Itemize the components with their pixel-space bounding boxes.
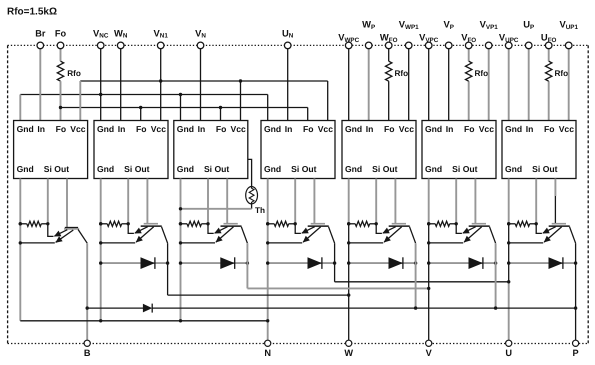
svg-text:Rfo=1.5kΩ: Rfo=1.5kΩ xyxy=(7,7,57,18)
node Fo / fault bus junction xyxy=(59,106,62,109)
terminal WFO xyxy=(380,32,398,121)
svg-text:VP: VP xyxy=(443,19,453,31)
terminal VUPC xyxy=(499,32,519,121)
svg-text:Fo: Fo xyxy=(56,124,67,134)
transistor IGBT U-low Q6 xyxy=(266,224,335,245)
wire U-low collector drop xyxy=(334,243,336,282)
terminal VVP1 xyxy=(480,19,499,121)
node cell 3 gate-resistor junction xyxy=(179,222,182,225)
svg-text:Gnd: Gnd xyxy=(345,164,362,174)
svg-text:VN: VN xyxy=(195,28,206,40)
thermistor Th xyxy=(246,159,265,215)
wire U1 Gnd / brake emitter vertical xyxy=(19,179,21,321)
terminal VP xyxy=(443,19,453,121)
wire brake collector to terminal B xyxy=(86,243,88,340)
svg-text:Fo: Fo xyxy=(303,124,314,134)
wire W-high collector drop xyxy=(415,243,417,308)
svg-text:Fo: Fo xyxy=(464,124,475,134)
svg-text:VFO: VFO xyxy=(461,32,476,44)
wire U3 Gnd drop xyxy=(180,95,182,121)
wire V-high collector drop xyxy=(495,243,497,308)
driver IC U2 xyxy=(94,121,168,179)
svg-text:Out: Out xyxy=(54,164,69,174)
svg-text:B: B xyxy=(84,348,91,358)
svg-text:Fo: Fo xyxy=(136,124,147,134)
svg-text:Vcc: Vcc xyxy=(151,124,167,134)
diode freewheel D (W-low Q4) xyxy=(99,257,169,269)
driver IC U7 xyxy=(502,121,576,179)
wire U1 Vcc drop xyxy=(79,81,81,121)
node W-low emitter / N rail junction xyxy=(99,319,102,322)
svg-text:In: In xyxy=(446,124,454,134)
wire U3 Si drop xyxy=(207,179,209,224)
resistor gate R (W-high Q1) xyxy=(347,221,378,226)
wire Gnd rail (VNC to low-side drivers) xyxy=(20,94,267,96)
svg-text:Out: Out xyxy=(463,164,478,174)
diode brake freewheel D7 xyxy=(143,304,152,313)
svg-text:P: P xyxy=(573,348,579,358)
svg-text:Vcc: Vcc xyxy=(231,124,247,134)
terminal Fo xyxy=(55,29,67,62)
node W rail / W terminal junction xyxy=(347,293,350,296)
svg-text:Rfo: Rfo xyxy=(395,69,409,78)
terminal VN xyxy=(195,28,206,121)
driver IC U6 xyxy=(422,121,496,179)
node VN1 / Vcc rail junction xyxy=(159,79,162,82)
svg-text:Si: Si xyxy=(452,164,460,174)
wire U4 Vcc drop xyxy=(327,81,329,121)
terminal VWP1 xyxy=(399,19,419,121)
transistor IGBT W-low Q4 xyxy=(99,224,168,245)
svg-text:Out: Out xyxy=(215,164,230,174)
terminal B xyxy=(84,340,91,358)
transistor IGBT brake Q7 xyxy=(19,224,88,245)
wire U1 Si drop xyxy=(47,179,49,224)
wire U2 Gnd / W-low emitter vertical xyxy=(100,179,102,321)
wire V-low collector drop xyxy=(246,243,248,288)
wire Vcc rail (VN1 supply to low-side drivers) xyxy=(80,80,327,82)
wire U5 Gnd / W terminal vertical xyxy=(348,179,350,224)
svg-text:Gnd: Gnd xyxy=(17,164,34,174)
node brake collector / brake diode junction xyxy=(86,306,89,309)
node cell 6 gate-resistor junction xyxy=(427,222,430,225)
terminal WN xyxy=(114,28,128,121)
svg-text:VN1: VN1 xyxy=(154,28,169,40)
wire U7 Out (gate drive) drop xyxy=(554,179,556,197)
wire V phase rail xyxy=(247,287,428,289)
svg-text:In: In xyxy=(198,124,206,134)
svg-text:Rfo: Rfo xyxy=(475,69,489,78)
node W-high collector / P rail junction xyxy=(414,306,417,309)
terminal P xyxy=(573,340,579,358)
svg-text:Gnd: Gnd xyxy=(264,124,281,134)
node cell 7 gate-resistor junction xyxy=(507,222,510,225)
resistor Rfo (brake fault pull-up) xyxy=(57,61,81,81)
wire U-high collector / P terminal vertical xyxy=(575,243,577,340)
resistor gate R (W-low Q4) xyxy=(99,221,130,226)
wire Fo rail (fault output bus) xyxy=(61,107,308,109)
driver IC U1 xyxy=(14,121,88,179)
node cell 5 gate-resistor junction xyxy=(347,222,350,225)
svg-text:Vcc: Vcc xyxy=(70,124,86,134)
terminal Br xyxy=(35,29,46,121)
node cell 2 gate-resistor junction xyxy=(99,222,102,225)
wire U4 Si drop xyxy=(294,179,296,224)
svg-text:Gnd: Gnd xyxy=(345,124,362,134)
svg-text:Rfo: Rfo xyxy=(555,69,569,78)
svg-text:Fo: Fo xyxy=(384,124,395,134)
svg-text:Vcc: Vcc xyxy=(559,124,575,134)
svg-text:Gnd: Gnd xyxy=(177,124,194,134)
terminal VN1 xyxy=(154,28,169,121)
svg-text:Vcc: Vcc xyxy=(318,124,334,134)
svg-text:Vcc: Vcc xyxy=(479,124,495,134)
node VNC / Gnd rail junction xyxy=(99,93,102,96)
terminal W xyxy=(344,340,353,358)
svg-text:Si: Si xyxy=(44,164,52,174)
svg-text:Gnd: Gnd xyxy=(505,124,522,134)
svg-text:VVP1: VVP1 xyxy=(480,19,499,31)
module boundary (dotted) xyxy=(8,45,589,343)
svg-text:VWPC: VWPC xyxy=(338,32,359,44)
wire U2 Si drop xyxy=(127,179,129,224)
wire W-low collector drop xyxy=(167,243,169,295)
wire thermistor return to U3 Gnd xyxy=(181,208,252,210)
diode freewheel D (W-high Q1) xyxy=(347,257,417,269)
resistor gate R (brake Q7) xyxy=(19,221,50,226)
svg-text:Fo: Fo xyxy=(55,29,67,39)
wire U3 Gnd / V-low emitter vertical xyxy=(180,179,182,321)
svg-text:Br: Br xyxy=(35,29,46,39)
svg-text:VVPC: VVPC xyxy=(419,32,439,44)
wire U4 Gnd drop xyxy=(267,95,269,121)
resistor gate R (V-low Q5) xyxy=(179,221,210,226)
svg-text:WN: WN xyxy=(114,28,128,40)
node thermistor / U3 Gnd junction xyxy=(179,207,182,210)
wire U1 Gnd drop xyxy=(19,95,21,121)
wire U6 Out (gate drive) drop xyxy=(474,179,476,224)
wire U5 Out (gate drive) drop xyxy=(394,179,396,224)
wire U4 Out (gate drive) drop xyxy=(313,179,315,224)
node U2 Fo junction xyxy=(139,106,142,109)
transistor IGBT W-high Q1 xyxy=(347,224,416,245)
node U3 Fo junction xyxy=(219,106,222,109)
terminal VVPC xyxy=(419,32,439,121)
wire U3 Vcc drop xyxy=(240,81,242,121)
node U-high collector / P rail junction xyxy=(574,306,577,309)
wire P rail xyxy=(87,307,575,309)
svg-text:Gnd: Gnd xyxy=(97,164,114,174)
svg-text:Th: Th xyxy=(255,206,265,215)
transistor IGBT V-low Q5 xyxy=(179,224,248,245)
terminal V xyxy=(426,340,433,358)
terminal WP xyxy=(362,19,375,121)
node V-high collector / P rail junction xyxy=(494,306,497,309)
terminal VNC xyxy=(93,28,109,121)
svg-text:WFO: WFO xyxy=(380,32,398,44)
svg-text:Gnd: Gnd xyxy=(264,164,281,174)
svg-text:Si: Si xyxy=(372,164,380,174)
svg-text:VWP1: VWP1 xyxy=(399,19,419,31)
svg-text:Gnd: Gnd xyxy=(425,164,442,174)
node V rail / V terminal junction xyxy=(427,287,430,290)
wire Fo resistor to U1 Fo pin xyxy=(60,81,62,120)
svg-text:Fo: Fo xyxy=(544,124,555,134)
transistor IGBT V-high Q2 xyxy=(427,224,496,245)
svg-text:N: N xyxy=(264,348,271,358)
svg-text:UFO: UFO xyxy=(541,32,557,44)
terminal UN xyxy=(282,28,294,121)
resistor gate R (U-high Q3) xyxy=(507,221,538,226)
terminal VUP1 xyxy=(559,19,578,121)
svg-text:Si: Si xyxy=(124,164,132,174)
svg-text:Gnd: Gnd xyxy=(177,164,194,174)
svg-text:W: W xyxy=(344,348,353,358)
wire U7 Gnd / U terminal vertical xyxy=(508,179,510,224)
svg-text:Gnd: Gnd xyxy=(425,124,442,134)
svg-text:WP: WP xyxy=(362,19,375,31)
terminal VWPC xyxy=(338,32,359,121)
terminal UFO xyxy=(541,32,557,121)
svg-text:VNC: VNC xyxy=(93,28,109,40)
resistor Rfo (WFO) xyxy=(386,61,409,81)
svg-text:Out: Out xyxy=(543,164,558,174)
svg-text:U: U xyxy=(505,348,512,358)
node N terminal / N rail junction xyxy=(266,319,269,322)
terminal UP xyxy=(523,19,534,121)
svg-text:In: In xyxy=(118,124,126,134)
resistor Rfo (UFO) xyxy=(546,61,569,81)
wire U4 Gnd / N terminal vertical xyxy=(267,179,269,341)
wire U6 Si drop xyxy=(455,179,457,224)
wire U7 Si drop xyxy=(535,179,537,224)
node U3 Vcc junction xyxy=(239,79,242,82)
wire U2 Fo drop xyxy=(140,108,142,121)
diode freewheel D (U-low Q6) xyxy=(266,257,336,269)
svg-text:Out: Out xyxy=(383,164,398,174)
terminal U xyxy=(505,340,512,358)
wire U6 Gnd / V terminal vertical xyxy=(428,179,430,224)
svg-text:In: In xyxy=(37,124,45,134)
svg-text:In: In xyxy=(285,124,293,134)
svg-text:Si: Si xyxy=(532,164,540,174)
wire U4 Fo drop xyxy=(307,108,309,121)
svg-text:Out: Out xyxy=(302,164,317,174)
node cell 1 gate-resistor junction xyxy=(19,222,22,225)
svg-text:Fo: Fo xyxy=(216,124,227,134)
svg-text:Vcc: Vcc xyxy=(399,124,415,134)
wire W phase rail xyxy=(168,294,349,296)
wire U3 Out (gate drive) drop xyxy=(226,179,228,224)
node U rail / U terminal junction xyxy=(507,280,510,283)
wire N rail xyxy=(20,320,267,322)
transistor IGBT U-high Q3 xyxy=(507,224,576,245)
svg-text:Out: Out xyxy=(135,164,150,174)
wire U5 Si drop xyxy=(375,179,377,224)
resistor Rfo (VFO) xyxy=(466,61,489,81)
wire U3 Fo drop xyxy=(220,108,222,121)
svg-text:In: In xyxy=(366,124,374,134)
svg-text:Gnd: Gnd xyxy=(97,124,114,134)
node cell 4 gate-resistor junction xyxy=(266,222,269,225)
svg-text:Gnd: Gnd xyxy=(17,124,34,134)
svg-text:UN: UN xyxy=(282,28,294,40)
resistor gate R (V-high Q2) xyxy=(427,221,458,226)
svg-text:Si: Si xyxy=(204,164,212,174)
diode freewheel D (V-low Q5) xyxy=(179,257,249,269)
diode freewheel D (V-high Q2) xyxy=(427,257,497,269)
svg-text:UP: UP xyxy=(523,19,534,31)
driver IC U5 xyxy=(342,121,416,179)
svg-text:Rfo: Rfo xyxy=(67,69,81,78)
driver IC U3 xyxy=(174,121,248,179)
driver IC U4 xyxy=(261,121,335,179)
svg-text:In: In xyxy=(526,124,534,134)
svg-text:VUPC: VUPC xyxy=(499,32,519,44)
svg-text:Si: Si xyxy=(291,164,299,174)
wire U2 Out (gate drive) drop xyxy=(146,179,148,224)
node V-low emitter / N rail junction xyxy=(179,319,182,322)
wire U phase rail xyxy=(335,281,509,283)
terminal N xyxy=(264,340,271,358)
wire U1 Out (gate drive) drop xyxy=(66,179,68,228)
terminal VFO xyxy=(461,32,476,121)
node U3 Gnd junction xyxy=(179,93,182,96)
svg-text:VUP1: VUP1 xyxy=(559,19,578,31)
svg-text:Gnd: Gnd xyxy=(505,164,522,174)
svg-text:V: V xyxy=(426,348,433,358)
resistor gate R (U-low Q6) xyxy=(266,221,297,226)
diode freewheel D (U-high Q3) xyxy=(507,257,577,269)
